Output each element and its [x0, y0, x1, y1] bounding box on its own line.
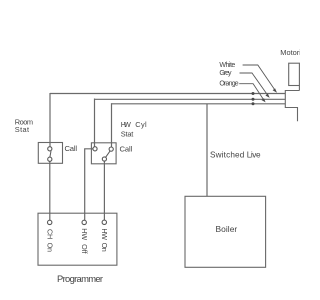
leader: Orange arrow to bottom bus: [239, 84, 263, 100]
Room Stat switch lever: [50, 151, 51, 157]
junction dot on Grey bus: [252, 98, 255, 101]
svg-text:Grey: Grey: [219, 70, 232, 77]
thermostat: HW Cyl Stat enclosure: [91, 143, 116, 164]
svg-text:CH On: CH On: [45, 229, 54, 252]
thermostat: Room Stat enclosure: [38, 143, 62, 164]
HW Cyl Stat terminal (left / HW Off): [93, 147, 97, 151]
Programmer terminal HW Off: [82, 220, 86, 224]
svg-text:Stat: Stat: [15, 125, 29, 134]
svg-text:Programmer: Programmer: [57, 273, 103, 284]
svg-text:HW On: HW On: [100, 228, 109, 251]
svg-text:Orange: Orange: [219, 80, 238, 87]
wire: Room Stat bottom terminal to Programmer CH On: [49, 161, 51, 220]
HW Cyl Stat terminal (common, bottom): [102, 157, 106, 161]
svg-text:White: White: [219, 62, 235, 69]
wire: HW Cyl Stat common terminal to Programmer HW On: [103, 161, 105, 220]
motorised valve: body / terminal box outline: [285, 86, 299, 122]
wire: drop from White bus to Room Stat top terminal: [49, 93, 51, 147]
wire: HW Cyl Stat left terminal to Programmer HW Off: [85, 149, 93, 220]
svg-text:Switched: Switched: [210, 151, 245, 160]
HW Cyl Stat switch lever: [106, 151, 111, 157]
svg-text:Motorised Valve: Motorised Valve: [280, 48, 300, 57]
Boiler enclosure: [185, 196, 266, 267]
junction dot on Orange bus: [252, 102, 255, 105]
wire: Orange (bottom bus to valve): [112, 103, 286, 105]
svg-text:HW: HW: [121, 120, 131, 129]
leader: Grey arrow to middle bus: [240, 73, 268, 95]
wire: drop from Grey bus to HW Cyl Stat left terminal: [94, 99, 96, 147]
svg-text:Boiler: Boiler: [216, 224, 238, 234]
Programmer enclosure: [38, 213, 117, 265]
motorised valve: motor head: [289, 63, 300, 85]
wire: Grey (middle bus to valve): [95, 98, 286, 100]
Programmer terminal HW On: [102, 220, 106, 224]
junction dot on White bus: [252, 92, 255, 95]
wire: Switched Live from Orange bus down to Boiler: [206, 104, 208, 197]
wire: White (top bus from Room Stat to valve): [50, 93, 285, 95]
Programmer terminal CH On: [48, 220, 52, 224]
svg-text:Call: Call: [120, 145, 133, 154]
HW Cyl Stat terminal (right / Orange): [109, 147, 113, 151]
Room Stat terminal (bottom): [48, 157, 52, 161]
leader: White arrow to top bus: [243, 65, 275, 89]
svg-text:Live: Live: [247, 151, 261, 160]
Room Stat terminal (top): [48, 147, 52, 151]
wire: drop from Orange bus to HW Cyl Stat right terminal: [111, 103, 113, 147]
svg-text:Call: Call: [65, 144, 78, 153]
svg-text:Cyl: Cyl: [135, 120, 147, 129]
svg-text:HW Off: HW Off: [80, 228, 89, 253]
svg-text:Stat: Stat: [121, 129, 134, 138]
